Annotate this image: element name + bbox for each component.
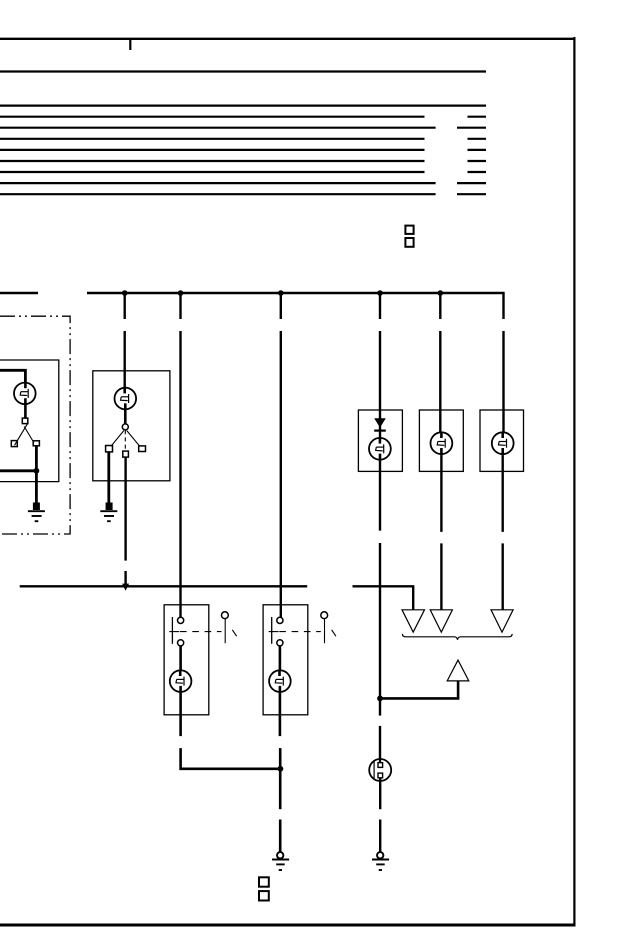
switch U1 blade (15, 423, 34, 445)
wire bus line 10 (0, 193, 486, 195)
wire L3 below box (502, 455, 504, 609)
switch S1 top terminal (178, 617, 184, 623)
lamp box L3 rectangle (480, 410, 524, 471)
switch U2 left terminal (106, 446, 113, 452)
wire drop to switch box S2 (280, 293, 282, 617)
connector triangle T4 (up) (447, 660, 469, 681)
wire S1 below bulb (181, 692, 281, 769)
lamp block U1 rectangle (0, 360, 59, 482)
junction dot E (438, 290, 444, 296)
feed wire horizontal into junction (0, 469, 36, 472)
junction dot D (377, 290, 383, 296)
wire bus line 2 (0, 104, 486, 106)
lamp box L2 rectangle (419, 410, 463, 471)
bulb L3 (492, 432, 514, 455)
switch U1 right terminal (33, 441, 39, 446)
wire stub tick on top border (129, 39, 131, 50)
wire U2 middle terminal down (124, 457, 126, 584)
ground G3 (272, 852, 289, 870)
feed wire into U1 (0, 370, 25, 382)
wire S2 to bulb (279, 646, 282, 670)
bulb S2 (269, 670, 291, 692)
frame right border (573, 37, 575, 926)
phantom enclosure box (dash-dot) (0, 316, 70, 534)
power bus wire (horizontal) main (87, 293, 504, 319)
wire flasher to ground (379, 778, 381, 852)
diode D1 (374, 418, 386, 438)
switch S1 contact bar (169, 617, 179, 644)
wire drop to lamp block U2 (123, 293, 125, 388)
arrow head onto bus 2 (122, 584, 129, 591)
frame top border (0, 38, 576, 40)
wire from T4 to junction (380, 681, 458, 699)
wire drop to lamp box L1 (379, 293, 381, 418)
junction dot U1 (34, 468, 40, 474)
wire bus line 8 (0, 171, 486, 173)
switch U1 top terminal (22, 418, 28, 424)
distribution bus 2 left segment (20, 585, 308, 587)
lamp block U2 rectangle (93, 371, 170, 481)
junction dot C (278, 290, 284, 296)
wire drop to lamp box L2 (439, 293, 441, 432)
switch U2 arms (111, 430, 140, 451)
bulb U2 (115, 388, 137, 424)
switch S2 contact bar (269, 617, 279, 644)
power bus wire (horizontal) left stub (0, 292, 38, 294)
wire S1 to bulb (179, 646, 182, 670)
wire bus line 4 (0, 127, 486, 129)
wire bus line 1 (0, 70, 486, 72)
switch S2 top terminal (277, 617, 283, 623)
lamp box L1 rectangle (358, 410, 402, 471)
wire drop to switch box S1 (179, 293, 181, 617)
switch S2 actuator (321, 612, 336, 643)
connector block squares top (405, 226, 413, 247)
bulb L1 (369, 438, 391, 460)
wire bus line 7 (0, 160, 486, 162)
wire L2 below box (440, 455, 442, 609)
switch S1 actuator (222, 612, 237, 643)
junction dot F (377, 696, 383, 702)
connector block squares bottom (259, 877, 269, 900)
wire from U1 right terminal down (35, 446, 38, 503)
switch U2 right terminal (139, 446, 146, 452)
connector triangle T2 (down) (430, 610, 452, 632)
switch U1 left terminal (11, 441, 17, 447)
wire bus line 6 (0, 149, 486, 151)
underbrace (402, 634, 512, 640)
junction dot A (122, 290, 128, 296)
switch S1 linkage (dashed) (180, 631, 222, 633)
bulb S1 (170, 670, 192, 692)
switch S2 linkage (dashed) (279, 631, 321, 633)
bulb U1 (14, 383, 36, 419)
switch U2 middle terminal (123, 451, 129, 457)
ground G2 (100, 503, 117, 522)
switch S2 lower terminal (277, 640, 283, 646)
wire bus line 5 (0, 138, 486, 140)
wire S2 below bulb to ground (279, 692, 282, 852)
flasher F1 (369, 759, 391, 781)
switch U2 pivot terminal (122, 424, 128, 430)
wire bus line 9 (0, 182, 486, 184)
connector triangle T3 (down) (491, 610, 513, 632)
ground G4 (372, 852, 389, 870)
wire U2 left terminal to ground (107, 452, 110, 503)
frame bottom border (0, 924, 576, 927)
wire L1 below box (379, 460, 381, 699)
connector triangle T1 (down) (402, 610, 425, 632)
switch box S2 rectangle (263, 605, 308, 715)
distribution bus 2 right segment with corner (353, 586, 414, 610)
wire drop to lamp box L3 (502, 331, 504, 432)
junction dot S1/S2 (278, 766, 284, 772)
switch box S1 rectangle (164, 605, 209, 715)
bulb L2 (431, 432, 453, 455)
junction dot B (178, 290, 184, 296)
wire to flasher (379, 698, 381, 763)
switch S1 lower terminal (178, 640, 184, 646)
ground G1 (28, 503, 45, 522)
wire bus line 3 (0, 116, 486, 118)
